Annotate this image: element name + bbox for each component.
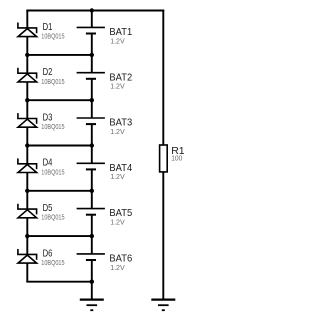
svg-text:1.2V: 1.2V xyxy=(110,82,125,91)
wire: battery BAT2 bottom lead xyxy=(91,79,93,100)
wire: row 4 connector between diode string and battery string xyxy=(27,190,92,192)
wire: battery BAT4 bottom lead xyxy=(91,169,93,190)
svg-text:10BQ015: 10BQ015 xyxy=(41,167,64,176)
battery BAT5 xyxy=(77,209,105,215)
diode D2 (Schottky, cathode up) xyxy=(18,68,37,82)
node: row 1 battery rail junction xyxy=(90,53,94,57)
wire: row 2 connector between diode string and battery string xyxy=(27,99,92,101)
wire: row 5 connector between diode string and battery string xyxy=(27,235,92,237)
diode D1 (Schottky, cathode up) xyxy=(18,23,37,37)
wire: left rail (diode string) xyxy=(26,11,28,282)
node: row 2 left rail junction xyxy=(25,98,29,102)
node: row 3 left rail junction xyxy=(25,143,29,147)
wire: bottom bus from left rail to ground node xyxy=(26,281,92,283)
battery BAT3 xyxy=(77,118,105,124)
wire: right rail down to R1 and ground xyxy=(162,11,164,300)
svg-text:10BQ015: 10BQ015 xyxy=(41,258,64,267)
svg-text:10BQ015: 10BQ015 xyxy=(41,122,64,131)
diode D4 (Schottky, cathode up) xyxy=(18,158,37,172)
diode D6 (Schottky, cathode up) xyxy=(18,249,37,263)
svg-text:1.2V: 1.2V xyxy=(110,127,125,136)
wire: battery BAT5 top lead xyxy=(91,191,93,209)
wire: battery BAT1 top lead xyxy=(91,11,93,28)
node: row 5 battery rail junction xyxy=(90,234,94,238)
node: top bus / battery rail junction xyxy=(90,8,94,12)
node: row 1 left rail junction xyxy=(25,53,29,57)
wire: row 3 connector between diode string and battery string xyxy=(27,145,92,147)
wire: battery BAT5 bottom lead xyxy=(91,215,93,236)
ground symbol (battery string) xyxy=(80,300,104,311)
node: row 4 left rail junction xyxy=(25,189,29,193)
battery BAT6 xyxy=(77,254,105,260)
node: row 2 battery rail junction xyxy=(90,98,94,102)
wire: battery BAT6 top lead xyxy=(91,236,93,254)
wire: battery BAT2 top lead xyxy=(91,55,93,73)
node: row 3 battery rail junction xyxy=(90,143,94,147)
wire: battery BAT1 bottom lead xyxy=(91,34,93,55)
svg-text:1.2V: 1.2V xyxy=(110,172,125,181)
ground symbol (R1) xyxy=(151,300,175,311)
svg-text:10BQ015: 10BQ015 xyxy=(41,32,64,41)
battery BAT1 xyxy=(77,27,105,33)
wire: ground lead below bottom bus xyxy=(91,282,93,300)
wire: battery BAT4 top lead xyxy=(91,146,93,164)
resistor R1 (box symbol) xyxy=(160,145,168,172)
svg-text:10BQ015: 10BQ015 xyxy=(41,77,64,86)
node: row 4 battery rail junction xyxy=(90,189,94,193)
svg-text:100: 100 xyxy=(171,154,182,163)
wire: top bus from left rail to right rail xyxy=(26,10,164,12)
svg-text:10BQ015: 10BQ015 xyxy=(41,213,64,222)
wire: battery BAT3 top lead xyxy=(91,100,93,118)
svg-text:1.2V: 1.2V xyxy=(110,36,125,45)
battery BAT2 xyxy=(77,73,105,79)
wire: battery BAT6 bottom lead xyxy=(91,260,93,282)
battery BAT4 xyxy=(77,163,105,169)
svg-text:1.2V: 1.2V xyxy=(110,218,125,227)
wire: battery BAT3 bottom lead xyxy=(91,124,93,145)
node: row 5 left rail junction xyxy=(25,234,29,238)
diode D3 (Schottky, cathode up) xyxy=(18,113,37,127)
wire: row 1 connector between diode string and battery string xyxy=(27,54,92,56)
diode D5 (Schottky, cathode up) xyxy=(18,204,37,218)
node: bottom bus / ground junction xyxy=(90,280,94,284)
svg-text:1.2V: 1.2V xyxy=(110,263,125,272)
